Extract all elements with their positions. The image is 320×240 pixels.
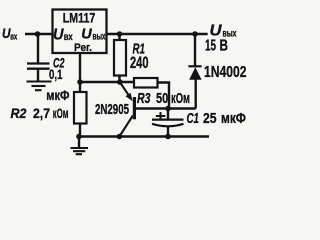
wire input	[25, 33, 52, 35]
ground under C2	[27, 82, 52, 91]
svg-text:вх: вх	[64, 31, 73, 43]
svg-text:вх: вх	[10, 32, 17, 42]
wire R1 bottom lead	[118, 75, 120, 82]
svg-text:вых: вых	[93, 31, 106, 43]
wire C1 top lead	[167, 109, 169, 120]
svg-text:В: В	[220, 38, 229, 55]
svg-text:кОм: кОм	[53, 105, 69, 121]
wire diode bottom lead	[194, 79, 196, 109]
node input/C2	[35, 31, 41, 37]
node ADJ/R2	[77, 79, 83, 85]
svg-text:C1: C1	[187, 111, 200, 127]
wire C2 to ground	[37, 70, 39, 82]
resistor R3 50k	[134, 78, 158, 88]
svg-text:мкФ: мкФ	[46, 87, 69, 103]
wire base rail	[136, 107, 196, 109]
node base/C1	[165, 106, 171, 112]
capacitor C2 plates	[27, 64, 50, 69]
emitter with arrow	[120, 82, 128, 95]
svg-text:2N2905: 2N2905	[95, 102, 129, 118]
svg-text:25: 25	[203, 111, 217, 127]
diode VD1 1N4002	[188, 66, 201, 80]
svg-text:кОм: кОм	[171, 91, 190, 107]
transistor Q1 2N2905	[119, 82, 136, 137]
svg-text:R3: R3	[137, 91, 151, 107]
svg-text:50: 50	[156, 91, 168, 107]
svg-text:15: 15	[205, 38, 216, 55]
wire R1 top lead	[118, 34, 120, 41]
svg-text:1N4002: 1N4002	[204, 64, 247, 81]
ground under R2	[71, 148, 89, 154]
wire C2 drop	[37, 34, 39, 63]
wire R2 top lead	[79, 82, 81, 92]
svg-text:Рег.: Рег.	[74, 42, 92, 54]
wire diode top lead	[194, 34, 196, 66]
collector	[119, 116, 132, 137]
wire ADJ rail	[80, 81, 135, 83]
node gnd/R2	[76, 134, 82, 140]
base bar	[133, 97, 136, 119]
svg-text:240: 240	[130, 54, 149, 72]
resistor R2 2.7k	[74, 92, 87, 124]
svg-text:0,1: 0,1	[49, 66, 63, 82]
node gnd/collector	[117, 134, 123, 140]
resistor R1 240	[114, 40, 126, 76]
junction dots	[35, 31, 198, 139]
wire ground stub	[78, 137, 80, 148]
node gnd/C1	[165, 134, 171, 140]
node output/diode	[192, 31, 198, 37]
wire C1 bottom lead	[167, 126, 169, 137]
node ADJ/R1/emitter	[117, 79, 123, 85]
C1 plus sign	[156, 112, 166, 120]
wire output	[106, 33, 208, 35]
capacitor C1 25uF polarized	[152, 120, 184, 127]
node output/R1	[117, 31, 123, 37]
svg-text:2,7: 2,7	[33, 105, 50, 121]
wire R2 bottom lead	[79, 124, 81, 137]
wire ground rail	[79, 135, 209, 137]
regulator U1 LM117 box	[53, 10, 107, 54]
svg-text:R2: R2	[11, 105, 27, 121]
svg-text:U: U	[81, 26, 93, 43]
svg-text:мкФ: мкФ	[221, 111, 246, 127]
wire Reg pin drop	[79, 53, 81, 82]
wire R3 right lead	[158, 83, 170, 109]
svg-text:U: U	[53, 27, 64, 44]
svg-text:LM117: LM117	[63, 10, 96, 26]
